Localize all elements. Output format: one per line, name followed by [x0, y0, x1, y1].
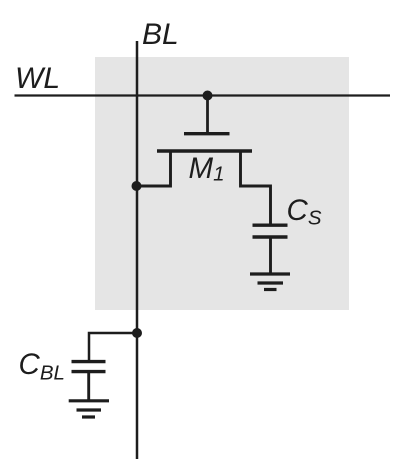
ground (below CBL) [69, 401, 109, 417]
node: WL / M1 gate junction [203, 91, 213, 101]
ground (below CS) [250, 274, 290, 290]
cell region (shaded DRAM cell boundary) [95, 57, 349, 310]
node: BL / CBL junction [132, 328, 142, 338]
svg-text:CBL: CBL [19, 348, 65, 385]
capacitor CS [253, 225, 288, 274]
svg-text:BL: BL [142, 18, 179, 51]
channel bar [157, 149, 252, 153]
wire: BL to CBL [89, 333, 137, 362]
transistor M1 [137, 134, 271, 226]
wire: word line WL [15, 94, 391, 96]
svg-text:WL: WL [15, 62, 60, 95]
wire: CBL to ground [87, 372, 90, 401]
gate electrode bar [184, 132, 230, 135]
wire: WL to M1 gate [206, 96, 209, 136]
wire: bit line BL [136, 41, 139, 459]
source lead (left) [137, 151, 171, 186]
capacitor CBL [72, 362, 106, 401]
drain lead (right) [241, 151, 271, 226]
wire: CS to ground [269, 237, 272, 274]
node: BL / M1 source junction [132, 181, 142, 191]
